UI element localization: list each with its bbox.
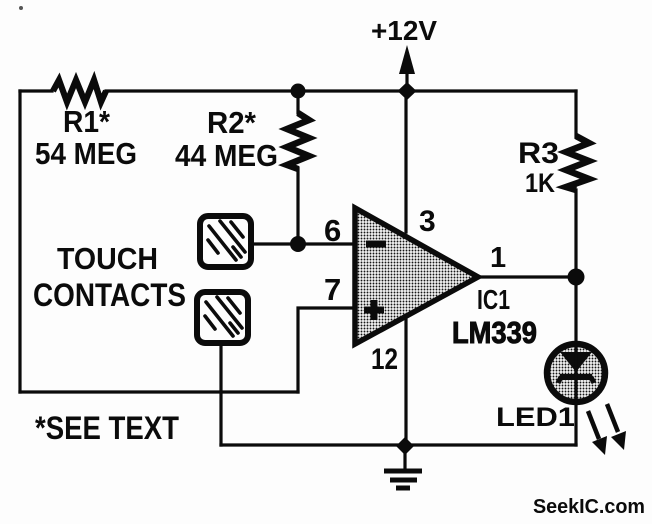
wire bottom rail xyxy=(221,443,576,446)
wire right vertical top xyxy=(574,91,577,137)
svg-text:*SEE TEXT: *SEE TEXT xyxy=(35,410,179,446)
LED1 circle body xyxy=(547,344,605,402)
svg-text:1: 1 xyxy=(490,242,506,274)
LED1 cathode bar ticks xyxy=(558,377,594,383)
LED light arrow 1 xyxy=(588,411,607,455)
svg-text:IC1: IC1 xyxy=(477,284,510,315)
svg-text:LED1: LED1 xyxy=(496,402,575,432)
node dot +12V junction xyxy=(398,82,417,100)
ground symbol xyxy=(384,471,422,488)
op-amp U1 triangle xyxy=(355,208,478,344)
touch contact pad 1 xyxy=(200,216,251,267)
svg-text:3: 3 xyxy=(419,205,436,238)
svg-text:54 MEG: 54 MEG xyxy=(35,136,137,171)
LED light arrow 2 xyxy=(607,404,626,450)
svg-text:TOUCH: TOUCH xyxy=(57,241,158,276)
svg-text:+12V: +12V xyxy=(371,15,437,46)
wire inverting input (node to pin 6) xyxy=(252,242,355,245)
wire R2 top stem xyxy=(296,91,299,113)
touch contact pad 2 xyxy=(197,292,248,343)
LED1 diode triangle xyxy=(560,352,592,372)
svg-text:SeekIC.com: SeekIC.com xyxy=(533,496,645,518)
resistor R2 zigzag xyxy=(287,113,309,169)
svg-text:R2*: R2* xyxy=(207,105,257,140)
wire through LED body xyxy=(574,345,577,402)
svg-text:LM339: LM339 xyxy=(452,315,537,350)
wire R2 bottom stem to node xyxy=(296,168,299,244)
resistor R3 zigzag xyxy=(566,136,589,190)
svg-text:12: 12 xyxy=(371,343,398,376)
wire bottom-left rail xyxy=(20,390,298,393)
svg-text:1K: 1K xyxy=(525,168,555,198)
node dot R2 top xyxy=(291,84,306,99)
wire left vertical xyxy=(18,91,21,392)
node dot output junction xyxy=(568,269,585,286)
wire output pin 1 xyxy=(477,275,576,278)
wire pin7 riser and elbow to + input xyxy=(298,308,355,392)
wire right vertical bottom through LED xyxy=(574,190,577,445)
svg-text:44 MEG: 44 MEG xyxy=(175,138,278,173)
wire top rail left of R1 xyxy=(20,89,52,92)
resistor R1 zigzag xyxy=(53,80,106,102)
wire touch contact 2 drop xyxy=(219,343,222,445)
node dot inverting input junction xyxy=(290,236,306,252)
svg-text:7: 7 xyxy=(324,272,341,307)
svg-text:CONTACTS: CONTACTS xyxy=(33,277,186,313)
wire pin 12 vertical xyxy=(404,320,407,445)
svg-text:6: 6 xyxy=(324,213,341,248)
wire ground stub xyxy=(403,445,406,469)
svg-text:R1*: R1* xyxy=(63,104,111,139)
power +12V arrowhead xyxy=(399,45,415,74)
wire +12V stem xyxy=(405,60,408,91)
node dot ground junction xyxy=(396,437,414,455)
svg-text:R3: R3 xyxy=(518,137,559,170)
op-amp plus symbol xyxy=(364,300,384,320)
wire pin 3 vertical xyxy=(404,91,407,232)
LED1 cathode bar xyxy=(560,374,592,380)
op-amp minus symbol xyxy=(366,241,386,248)
wire top rail R1 to R2/+12V/R3 xyxy=(106,89,576,92)
scan speck xyxy=(19,6,23,10)
